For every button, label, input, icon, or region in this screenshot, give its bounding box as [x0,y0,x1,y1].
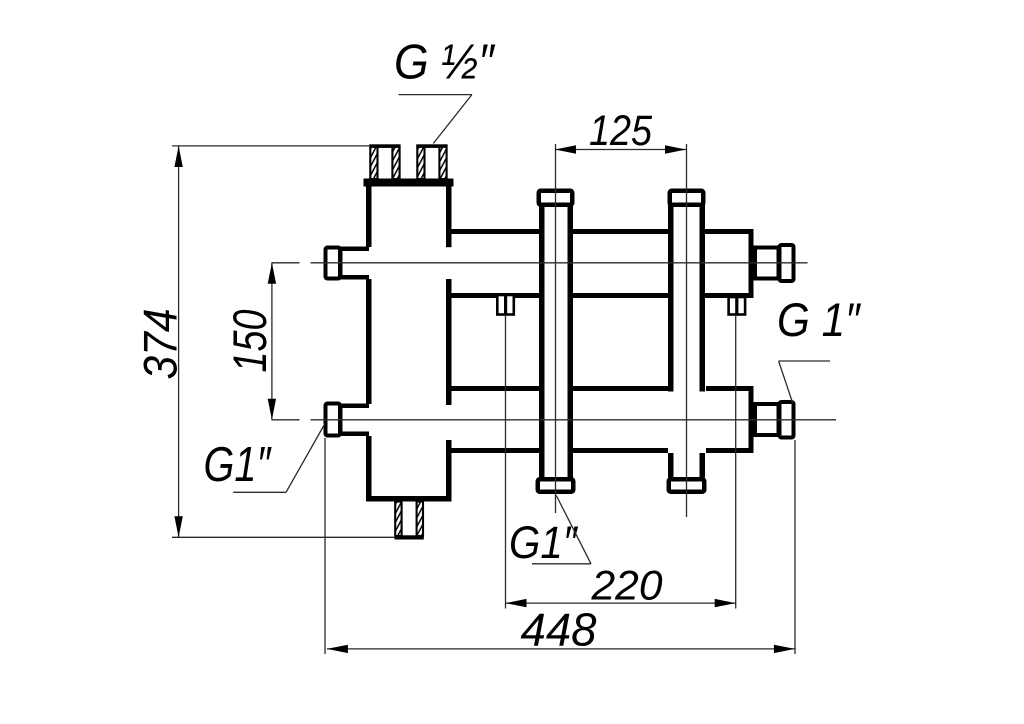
lower pipe right end edge [749,386,754,453]
svg-text:125: 125 [589,107,653,155]
extension line drain stub B [735,316,737,609]
body bottom edge [366,496,452,502]
extension line 374 top [172,145,370,147]
body right wall [446,185,452,502]
leader G1 inch bottom [532,496,591,564]
left upper port cap [326,248,341,279]
upper pipe top edge [449,229,751,234]
svg-text:G ½″: G ½″ [394,36,495,90]
centerline upper pipe [272,262,808,264]
drain stub B [729,297,746,315]
dimension 374 line and arrows [174,146,182,537]
extension line 448 left [324,438,326,654]
drain stub A [497,295,514,315]
branch 2 tube walls upper [668,203,705,392]
svg-text:G1″: G1″ [204,438,272,492]
upper pipe bottom edge [449,293,751,298]
leader G1 inch left [233,424,325,493]
right lower male cap [780,402,794,438]
svg-text:448: 448 [521,604,597,656]
centerline branch 1 [555,144,557,513]
branch 2 tube walls lower [668,453,705,478]
branch 2 bottom cap [669,479,705,492]
left lower port cap [326,404,341,436]
lower pipe bottom edge [449,448,751,453]
extension line 374 bottom [172,536,395,538]
dimension 220 line and arrows [506,599,736,607]
right upper male nipple [755,248,779,279]
top stub 2 (G 1/2 threaded) [416,144,447,179]
dimension 150 line and arrows [268,263,276,420]
svg-text:G 1″: G 1″ [777,293,861,346]
left lower port body [338,404,369,437]
leader G 1 inch right [779,361,830,403]
svg-text:374: 374 [134,309,187,380]
dimension 125 line and arrows [555,145,686,153]
right lower male nipple [755,404,779,435]
centerline branch 2 [686,144,688,517]
branch 1 tube walls [539,203,573,478]
svg-text:150: 150 [223,310,276,373]
branch 1 top cap [539,191,573,205]
lower pipe top edge [449,386,751,391]
branch 1 bottom cap [538,479,574,492]
svg-text:G1″: G1″ [509,517,579,568]
extension line drain stub A [505,316,507,609]
right upper male cap [780,245,794,281]
body left wall [366,185,372,502]
extension line 448 right [794,440,796,654]
leader G 1/2 inch [399,95,472,144]
upper pipe right end edge [749,229,754,298]
left upper port body [338,247,369,280]
bottom stub (threaded) [394,502,423,540]
top stub 1 (G 1/2 threaded) [369,144,400,179]
svg-text:220: 220 [590,562,663,609]
dimension 448 line and arrows [327,645,795,653]
centerline lower pipe [272,419,837,421]
body top collar [364,179,454,187]
branch 2 top cap [670,191,704,205]
